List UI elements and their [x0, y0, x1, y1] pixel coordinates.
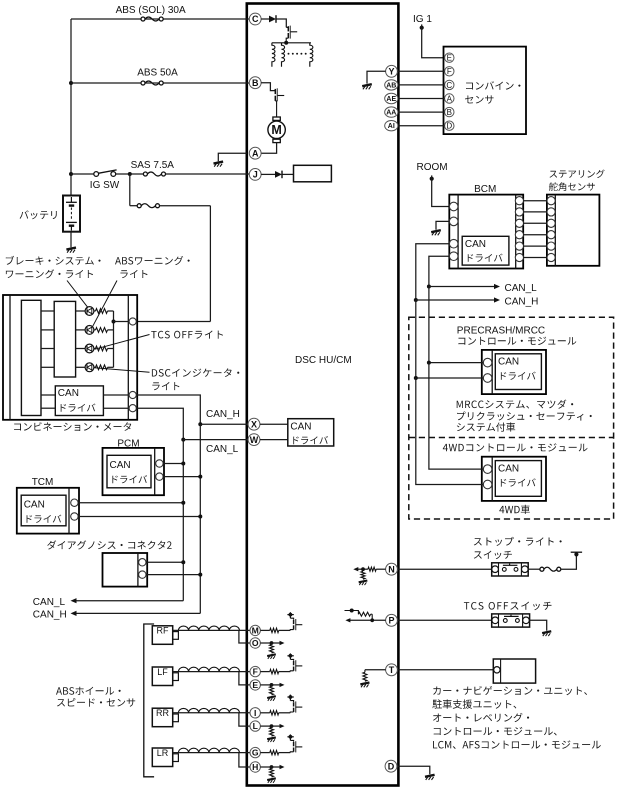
wire supply bar — [571, 551, 582, 553]
svg-text:CAN_H: CAN_H — [33, 610, 67, 621]
connector X — [248, 418, 260, 430]
wire Y to internal ground — [367, 71, 386, 83]
wire CANH riser — [199, 424, 201, 613]
transistor Q1 solenoid driver — [286, 26, 297, 43]
inductor solenoid coil N — [310, 43, 313, 67]
label MRCC line3 — [457, 422, 515, 431]
sensor RF box — [152, 626, 172, 645]
connector G — [250, 747, 260, 757]
pin meter 1 — [129, 318, 136, 325]
resistor N bias — [361, 571, 365, 579]
transistor sense G — [287, 734, 302, 752]
svg-text:B: B — [447, 108, 452, 117]
pin TCM 2 — [71, 513, 78, 520]
resistor T bias — [363, 672, 367, 681]
svg-text:E: E — [447, 54, 452, 63]
transistor sense I — [287, 695, 302, 713]
svg-text:CAN: CAN — [498, 464, 519, 475]
label driver (meter) — [61, 404, 96, 412]
label combine sensor line1 — [466, 81, 521, 90]
svg-text:ROOM: ROOM — [417, 162, 448, 173]
label stop light switch line2 — [474, 551, 512, 560]
pin diag 2 — [139, 571, 146, 578]
combine sensor box — [444, 47, 527, 135]
central control module box DSC HU/CM — [247, 4, 399, 786]
svg-text:CAN_L: CAN_L — [206, 444, 239, 455]
wire lamp bus vertical — [113, 311, 115, 367]
svg-text:P: P — [388, 616, 394, 626]
node L bias — [270, 724, 274, 728]
wire Y-F — [397, 70, 444, 72]
ground N — [359, 581, 368, 586]
wire 4wd strip — [491, 457, 493, 501]
wire precrash strip — [491, 350, 493, 394]
resistor lamp 2 — [96, 328, 108, 333]
connector A — [249, 147, 261, 159]
svg-text:LR: LR — [157, 748, 169, 758]
svg-text:AB: AB — [386, 82, 396, 89]
wire BCM-steering 6 — [523, 257, 547, 259]
label DSC indicator line2 — [152, 382, 179, 390]
resistor input M — [270, 628, 279, 632]
wire CAN_H bus right segment2 — [415, 300, 417, 378]
wire A to chassis ground — [218, 153, 247, 161]
node junction bus-ABS50A — [69, 81, 73, 85]
svg-text:T: T — [389, 665, 395, 675]
svg-text:M: M — [271, 123, 281, 137]
bracket wheel sensors — [144, 624, 154, 777]
arrow P sense — [345, 618, 350, 622]
pin E combine sensor — [445, 53, 454, 63]
pin F combine sensor — [445, 67, 454, 77]
wire L to node — [260, 725, 271, 727]
label TCS OFF switch — [464, 602, 552, 611]
ellipsis dots between coils — [288, 53, 290, 55]
pin steering 6 — [547, 253, 555, 261]
switch TCS OFF box — [492, 614, 530, 627]
svg-text:RF: RF — [157, 626, 169, 636]
svg-text:CAN: CAN — [110, 460, 131, 471]
leader ABS warning — [93, 281, 117, 327]
node X tap — [198, 422, 202, 426]
wire F to resistor — [260, 671, 269, 673]
cable LF twisted pair — [172, 667, 250, 671]
block CAN driver DSC — [288, 419, 334, 446]
label driver (BCM) — [468, 254, 503, 262]
wire P to TCS switch — [397, 619, 491, 621]
svg-text:AI: AI — [388, 123, 395, 130]
label steering line2 — [549, 182, 595, 191]
svg-text:BCM: BCM — [474, 184, 496, 195]
pin steering 2 — [547, 208, 555, 216]
label driver (precrash) — [501, 372, 536, 380]
cable RR twisted pair — [172, 708, 250, 712]
svg-text:CAN: CAN — [498, 357, 519, 368]
wire PCM1 to CANL — [163, 463, 183, 465]
svg-text:CAN: CAN — [24, 499, 45, 510]
svg-text:F: F — [253, 667, 258, 677]
fuse ABS (SOL) 30A — [141, 17, 163, 21]
svg-text:C: C — [252, 14, 259, 24]
svg-text:RR: RR — [156, 708, 169, 718]
wire CAN_L bus right segment2 — [428, 287, 430, 363]
fuse stop light — [540, 567, 561, 571]
wire resistor to FET M — [279, 629, 291, 631]
motor M pump — [268, 117, 285, 143]
wire IG1 to sensor E — [422, 28, 445, 58]
wire P bias up — [371, 614, 373, 620]
svg-text:CAN: CAN — [290, 422, 311, 433]
node junction bus-IG — [69, 172, 73, 176]
wire P internal — [348, 619, 386, 621]
wire diode to regulator — [282, 173, 293, 175]
label MRCC line1 — [457, 400, 574, 409]
svg-text:CAN_H: CAN_H — [505, 296, 539, 307]
svg-text:ABS (SOL) 30A: ABS (SOL) 30A — [116, 5, 186, 16]
connector P — [386, 614, 398, 626]
transistor sense M — [287, 612, 302, 630]
label combine sensor line2 — [465, 95, 494, 103]
wire BCM-steering 3 — [523, 222, 547, 224]
svg-text:A: A — [252, 148, 259, 158]
connector AE — [385, 93, 398, 103]
wire lamp bus to meter pin1 — [114, 321, 130, 323]
arrow O sense — [280, 641, 285, 645]
resistor input I — [270, 711, 279, 715]
wire CAN_L out — [76, 600, 183, 602]
wire rail to CAN meter a — [41, 394, 55, 396]
wire battery to ground — [70, 232, 72, 248]
wire AA-B — [398, 111, 445, 113]
wire IG SW to SAS fuse — [116, 173, 144, 175]
pin precrash 2 — [483, 374, 492, 383]
sensor RF connector lug — [173, 632, 179, 640]
wire steering strip — [554, 195, 556, 266]
svg-text:TCM: TCM — [32, 477, 54, 488]
wire BCM-steering 4 — [523, 234, 547, 236]
svg-text:PRECRASH/MRCC: PRECRASH/MRCC — [457, 325, 545, 336]
label ABS warning line1 — [115, 256, 190, 265]
node P bias — [370, 618, 374, 622]
svg-text:O: O — [252, 638, 259, 648]
label units line3 — [433, 713, 529, 722]
wire RF branch to O — [239, 630, 250, 643]
wire CANH to precrash pin2 — [416, 377, 484, 379]
svg-text:A: A — [447, 94, 453, 103]
svg-text:N: N — [388, 564, 395, 574]
arrow L sense — [280, 724, 285, 728]
pin BCM L3 — [449, 239, 458, 248]
pin BCM R1 — [515, 197, 523, 205]
resistor lamp 1 — [96, 309, 108, 314]
wire rail to lamp driver 4 — [41, 366, 54, 368]
node CAN_H tap right — [414, 298, 418, 302]
node diag CANL — [181, 560, 185, 564]
node PCM CANH — [198, 475, 202, 479]
node H bias — [270, 765, 274, 769]
pin precrash 1 — [483, 358, 492, 367]
pin BCM L2 — [449, 217, 458, 226]
sensor RR connector lug — [173, 714, 179, 722]
wire ABS 50A feed — [71, 82, 249, 84]
wire ROOM to BCM pin1 — [432, 179, 450, 207]
wire meter fuse to riser — [160, 205, 211, 207]
wire fuse to supply — [561, 556, 577, 569]
connector T — [386, 664, 398, 676]
arrow E sense — [280, 683, 285, 687]
svg-text:B: B — [252, 78, 259, 88]
node P supply — [350, 609, 354, 613]
pin steering 4 — [547, 231, 555, 239]
svg-text:DSC HU/CM: DSC HU/CM — [295, 355, 352, 366]
label precrash module — [458, 337, 576, 345]
pin PCM 1 — [156, 460, 163, 467]
ground L — [267, 737, 276, 742]
leader DSC indicator — [95, 368, 150, 373]
pin A combine sensor — [445, 94, 454, 104]
wire battery bus vertical — [70, 19, 72, 196]
transistor sense F — [287, 653, 302, 671]
wire ABS (SOL) 30A feed — [71, 18, 249, 20]
resistor input G — [270, 750, 279, 754]
wire PCM strip — [154, 448, 156, 495]
pin 4wd 2 — [483, 480, 492, 489]
ground D — [425, 775, 435, 780]
connector N — [386, 563, 398, 575]
wire lamp to resistor 2 — [94, 329, 96, 331]
wire rail to lamp driver 1 — [41, 310, 54, 312]
label driver (PCM) — [112, 475, 147, 483]
node TCM CANL — [181, 501, 185, 505]
wire BCM-steering 5 — [523, 245, 547, 247]
label units line5 — [433, 740, 601, 749]
svg-text:W: W — [250, 435, 259, 445]
svg-text:D: D — [446, 122, 452, 131]
pin BCM R5 — [515, 242, 523, 250]
ground internal Y — [362, 84, 372, 89]
wire motor to A — [261, 143, 277, 154]
wire diode to FET — [276, 19, 286, 27]
wire CANL riser — [182, 440, 184, 601]
label driver (DSC) — [293, 436, 328, 444]
wire M to resistor — [260, 629, 269, 631]
pin BCM L1 — [449, 202, 458, 211]
wire meter left inner strip — [9, 295, 11, 420]
wire CAN meter to pin2 — [103, 394, 129, 396]
wire PCM2 to CANH — [163, 476, 200, 478]
resistor bias H — [270, 769, 274, 778]
resistor input F — [270, 669, 279, 673]
wire switch to fuse — [528, 568, 540, 570]
wire resistor to FET F — [279, 671, 291, 673]
wire CAN_L arrow right — [429, 286, 495, 288]
connector J — [249, 169, 261, 181]
ground pump — [214, 162, 224, 167]
node E bias — [270, 683, 274, 687]
wire IG feed segment — [71, 173, 94, 175]
module box BCM — [449, 195, 523, 269]
wire W to CAN driver — [260, 439, 288, 441]
svg-text:L: L — [253, 721, 258, 731]
node precrash CANL — [427, 361, 431, 365]
label driver (4wd) — [501, 478, 536, 486]
pin BCM L4 — [449, 252, 458, 261]
svg-text:Y: Y — [388, 67, 394, 77]
wire riser down to meter — [209, 206, 211, 322]
node solenoid feed — [284, 41, 288, 45]
svg-text:SAS 7.5A: SAS 7.5A — [131, 160, 175, 171]
connector H — [250, 762, 260, 772]
svg-text:D: D — [388, 761, 395, 771]
node CAN_L tap right — [427, 285, 431, 289]
wire BCM pin3 to CAN_H bus — [416, 244, 450, 300]
node junction SAS branch — [128, 172, 132, 176]
block CAN driver PCM — [107, 455, 151, 488]
cable RF twisted pair — [172, 626, 250, 630]
label MRCC line2 — [457, 412, 592, 421]
wire O to node — [260, 642, 271, 644]
resistor P pullup — [358, 612, 370, 616]
label wheel sensors line1 — [56, 687, 121, 695]
block CAN driver 4WD — [495, 461, 541, 497]
sensor LF connector lug — [173, 673, 179, 681]
label TCS OFF light — [151, 331, 223, 339]
node N bias — [361, 567, 365, 571]
wire BCM left strip — [457, 195, 459, 269]
block internal regulator — [294, 165, 332, 182]
combination meter box — [3, 295, 137, 420]
ground TCS switch — [542, 631, 551, 636]
inductor solenoid coil 1 — [272, 43, 275, 67]
wire rail to lamp driver 3 — [41, 348, 54, 350]
switch stop light box — [492, 563, 529, 576]
lamp indicator 3 — [85, 344, 94, 353]
wire resistor to bus 3 — [108, 348, 114, 350]
ground H — [267, 778, 276, 783]
dashed option box — [409, 317, 614, 519]
pin steering 3 — [547, 219, 555, 227]
resistor bias L — [270, 728, 274, 737]
pin diag 1 — [139, 559, 146, 566]
node precrash CANH — [414, 376, 418, 380]
node PCM CANL — [181, 462, 185, 466]
wire N to stop light switch — [397, 568, 491, 570]
fuse ABS 50A — [141, 81, 163, 85]
svg-text:CAN: CAN — [58, 388, 79, 399]
wire resistor to bus 2 — [108, 329, 114, 331]
svg-text:F: F — [447, 67, 452, 76]
ground E — [267, 696, 276, 701]
svg-text:CAN: CAN — [465, 239, 486, 250]
wire TCM strip — [68, 488, 70, 534]
diode solenoid supply — [269, 15, 276, 23]
arrow H sense — [280, 765, 285, 769]
arrow CAN_L right — [494, 284, 500, 289]
block CAN driver BCM — [462, 236, 509, 265]
node IG 1 tap — [420, 26, 424, 30]
wire BCM pin4 to CAN_L bus — [429, 256, 450, 286]
wire CANH bus to 4wd pin2 — [416, 378, 484, 485]
connector I — [250, 708, 260, 718]
wire BCM pin2 to ground — [436, 221, 449, 229]
connector F — [250, 666, 260, 676]
connector Y — [386, 65, 398, 77]
arrow N sense — [353, 567, 358, 571]
block meter internal rail — [21, 300, 41, 415]
wire TCM2 to CANH — [78, 516, 200, 518]
wire riser to meter pin1 — [137, 321, 211, 323]
pin BCM R3 — [515, 219, 523, 227]
wire rail to lamp driver 2 — [41, 329, 54, 331]
connector AI — [385, 121, 398, 131]
transistor Q2 pump motor driver — [275, 88, 284, 117]
steering angle sensor box — [547, 195, 600, 266]
wire TCM1 to CANL — [78, 502, 183, 504]
resistor lamp 3 — [96, 346, 108, 351]
wire BCM right strip — [515, 195, 517, 269]
pin BCM R4 — [515, 231, 523, 239]
wire O arrow — [272, 642, 282, 644]
wire solenoid feed rail — [272, 42, 311, 44]
pin meter 2 — [129, 391, 136, 398]
label diagnosis connector 2 — [47, 540, 171, 549]
svg-text:I: I — [254, 708, 256, 718]
connector box nav units — [493, 659, 535, 683]
wire CAN_H arrow right — [416, 299, 495, 301]
wire AI-D — [398, 125, 445, 127]
connector O — [250, 638, 260, 648]
wire CAN_H out — [76, 612, 200, 614]
connector D — [385, 760, 397, 772]
wire G to resistor — [260, 752, 269, 754]
pin D combine sensor — [445, 121, 454, 131]
block CAN driver precrash — [495, 354, 541, 390]
wire diag1 to CANL — [146, 561, 183, 563]
wire resistor to FET G — [279, 752, 291, 754]
wire D to ground — [397, 766, 429, 774]
label units line1 — [433, 686, 587, 695]
label combination meter — [14, 422, 131, 431]
svg-text:LF: LF — [157, 667, 168, 677]
module box PCM — [103, 448, 165, 495]
connector B — [249, 77, 261, 89]
resistor lamp 4 — [96, 365, 108, 370]
node ROOM tap — [430, 177, 434, 181]
svg-text:IG SW: IG SW — [90, 180, 120, 191]
svg-text:ABS 50A: ABS 50A — [137, 68, 178, 79]
module box precrash CAN — [482, 350, 546, 394]
wire driver to lamp 1 — [76, 310, 86, 312]
wire branch down to meter fuse — [129, 174, 131, 206]
pin BCM R6 — [515, 253, 523, 261]
fuse METER — [137, 204, 159, 208]
svg-text:E: E — [252, 680, 258, 690]
wire driver to lamp 2 — [76, 329, 86, 331]
ground T — [360, 682, 369, 687]
block CAN driver meter — [55, 386, 103, 416]
wire resistor to bus 1 — [108, 310, 114, 312]
node lamp bus tap — [112, 320, 116, 324]
connector E — [250, 680, 260, 690]
pin steering 1 — [547, 197, 555, 205]
connector L — [250, 721, 260, 731]
resistor bias E — [270, 686, 274, 695]
svg-text:IG 1: IG 1 — [413, 14, 432, 25]
dashed divider — [409, 437, 614, 439]
wire E to node — [260, 684, 271, 686]
arrow CAN_H out — [71, 611, 77, 616]
svg-text:CAN_H: CAN_H — [206, 409, 240, 420]
